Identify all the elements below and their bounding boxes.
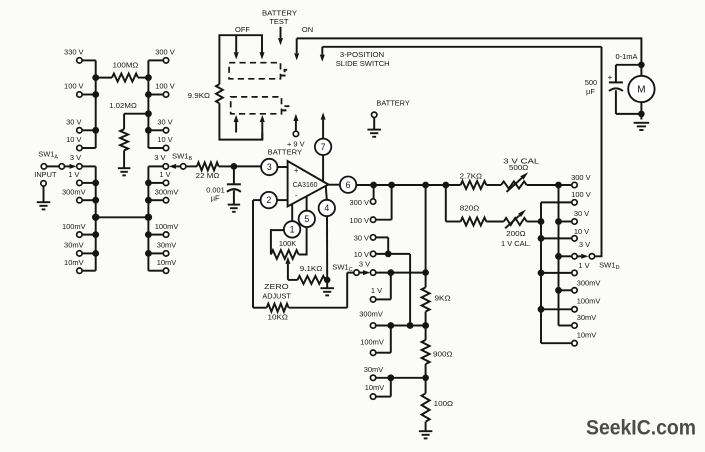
- junction column A bus: [92, 91, 99, 98]
- switch SW1_D contact 300 V: [559, 173, 592, 188]
- svg-text:1 V: 1 V: [159, 170, 171, 179]
- potentiometer 200 1 V CAL: [501, 210, 541, 248]
- resistor 2.7K: [460, 172, 502, 189]
- watermark SeekIC.com: [586, 417, 696, 440]
- junction column A bus: [92, 197, 99, 204]
- svg-text:3 V: 3 V: [154, 153, 166, 162]
- slide switch body (dashed) position 2: [231, 97, 290, 114]
- junction 3 V row / 1 V drop: [387, 269, 394, 276]
- potentiometer 100K (offset null): [271, 227, 307, 259]
- svg-text:4: 4: [324, 203, 329, 213]
- svg-text:9KΩ: 9KΩ: [435, 293, 451, 302]
- meter M 0-1mA: [628, 65, 654, 120]
- wire meter top to capacitor: [616, 65, 642, 83]
- svg-text:9.9KΩ: 9.9KΩ: [188, 91, 211, 100]
- svg-text:7: 7: [321, 142, 326, 152]
- wire column A bus lower: [95, 166, 97, 270]
- junction 1V-CAL bus / 1 V: [538, 270, 545, 277]
- svg-text:900Ω: 900Ω: [433, 350, 453, 359]
- junction 300mV / 100mV tie: [387, 322, 394, 329]
- resistor 9.9K: [188, 84, 223, 103]
- junction pin4 / 9.1K / ground: [324, 277, 331, 284]
- svg-text:SeekIC.com: SeekIC.com: [586, 417, 696, 440]
- switch SW1_A contact 30 V: [66, 118, 96, 134]
- junction column B bus: [145, 231, 152, 238]
- label ON: [302, 25, 313, 34]
- switch SW1_C contact 30 V: [354, 234, 389, 254]
- svg-text:10 V: 10 V: [66, 135, 82, 144]
- label 3-POSITION SLIDE SWITCH: [336, 50, 390, 68]
- svg-text:10 V: 10 V: [354, 250, 370, 259]
- svg-text:1 V: 1 V: [68, 170, 80, 179]
- switch SW1_C contact 300mV: [359, 309, 425, 328]
- switch SW1_A contact 30mV: [64, 241, 96, 257]
- svg-text:100 V: 100 V: [64, 82, 84, 91]
- svg-text:30 V: 30 V: [66, 118, 82, 127]
- junction divider 9K/900: [422, 322, 429, 329]
- switch SW1_A contact 10mV: [64, 258, 96, 274]
- svg-text:30mV: 30mV: [364, 365, 384, 374]
- svg-text:300 V: 300 V: [350, 198, 370, 207]
- junction output line / divider: [422, 182, 429, 189]
- switch SW1_A contact 100 V: [64, 82, 96, 98]
- svg-text:30 V: 30 V: [354, 234, 370, 243]
- svg-text:100 V: 100 V: [350, 216, 370, 225]
- junction column B bus: [145, 127, 152, 134]
- op-amp pin 4 (V-): [319, 186, 335, 280]
- svg-text:2: 2: [266, 195, 271, 205]
- svg-text:+: +: [607, 72, 612, 82]
- resistor 9K: [422, 273, 451, 326]
- svg-text:BATTERY: BATTERY: [376, 99, 409, 108]
- junction 1V-CAL bus / 200 pot: [538, 218, 545, 225]
- arrow ON position right: [320, 47, 325, 62]
- svg-text:SLIDE SWITCH: SLIDE SWITCH: [336, 59, 390, 68]
- arrow OFF position right: [260, 52, 265, 59]
- switch SW1_C contact 10mV: [365, 378, 391, 400]
- switch SW1_C contact 100 V: [350, 185, 392, 225]
- wire OFF bracket top: [219, 35, 262, 84]
- switch SW1_C wiper (pole, arrow to 3 V contact): [332, 259, 371, 275]
- switch SW1_A contact 100mV: [62, 222, 96, 238]
- svg-text:OFF: OFF: [235, 25, 250, 34]
- svg-text:+: +: [294, 166, 299, 175]
- wire slide-switch ON to SW1_D wiper: [322, 46, 601, 48]
- wire 820 branch: [446, 185, 461, 222]
- label 0-1mA: [616, 52, 639, 61]
- svg-text:3 V: 3 V: [359, 259, 371, 268]
- switch SW1_C contact 100mV: [360, 326, 391, 356]
- arrow OFF position left: [234, 35, 239, 59]
- switch SW1_B contact 30mV: [148, 241, 177, 257]
- svg-text:30mV: 30mV: [64, 241, 84, 250]
- svg-text:100mV: 100mV: [577, 297, 602, 306]
- resistor 9.1K: [298, 264, 328, 284]
- switch SW1_B contact 100 V: [148, 82, 175, 98]
- switch SW1_C contact 30mV: [364, 365, 426, 381]
- junction 1V-CAL bus / 10 V: [538, 235, 545, 242]
- switch SW1_C contact 3 V: [370, 270, 425, 275]
- svg-text:3 V: 3 V: [579, 240, 591, 249]
- switch SW1_B contact 300mV: [148, 187, 179, 203]
- junction meter bottom: [638, 111, 645, 118]
- junction divider 900/100: [422, 375, 429, 382]
- resistor 1.02M (1.02 megohm): [109, 101, 148, 168]
- switch SW1_B contact 30 V: [148, 118, 173, 134]
- switch SW1_C contact 1 V: [370, 273, 390, 302]
- svg-text:1 V CAL.: 1 V CAL.: [501, 239, 531, 248]
- resistor 100M (100 megohm): [96, 61, 149, 82]
- ground (pin 4): [320, 280, 334, 296]
- wire SW1_A 3 V contact to bus: [82, 165, 96, 167]
- switch SW1_A contact 330 V: [64, 48, 96, 64]
- wire column A bus upper: [95, 60, 97, 148]
- svg-text:µF: µF: [211, 194, 220, 203]
- switch SW1_B contact 1 V: [148, 170, 171, 185]
- resistor 820: [460, 204, 504, 226]
- svg-text:10mV: 10mV: [577, 331, 597, 340]
- svg-text:300mV: 300mV: [577, 278, 602, 287]
- junction 30 V / 10 V tie: [385, 251, 392, 258]
- capacitor 0.001 uF: [206, 166, 241, 204]
- junction 3V-CAL bus / 30 V: [555, 218, 562, 225]
- resistor 900: [422, 326, 453, 378]
- svg-text:3 V: 3 V: [70, 153, 82, 162]
- op-amp pin 2 (inverting input): [261, 192, 288, 208]
- junction 3V-CAL bus / 3 V: [555, 253, 562, 260]
- junction column A bus: [92, 127, 99, 134]
- svg-text:10mV: 10mV: [365, 383, 385, 392]
- svg-text:9.1KΩ: 9.1KΩ: [300, 264, 323, 273]
- node +9 V battery terminal: [268, 114, 306, 157]
- junction column B bus: [145, 91, 152, 98]
- svg-text:30 V: 30 V: [574, 209, 590, 218]
- svg-text:3: 3: [267, 162, 272, 172]
- op-amp pin 3 (non-inverting input): [261, 159, 288, 175]
- junction 22M / 0.001uF: [231, 163, 238, 170]
- wire slide-switch ON to meter: [297, 38, 642, 62]
- junction column A bus: [92, 74, 99, 81]
- svg-text:100K: 100K: [279, 239, 296, 248]
- svg-text:ON: ON: [302, 25, 313, 34]
- svg-text:0-1mA: 0-1mA: [616, 52, 639, 61]
- svg-text:500: 500: [585, 78, 597, 87]
- svg-text:100Ω: 100Ω: [434, 399, 454, 408]
- resistor 100: [422, 378, 454, 431]
- wire column B bus lower: [147, 166, 149, 270]
- svg-text:M: M: [637, 85, 645, 96]
- svg-text:300 V: 300 V: [571, 173, 591, 182]
- wire SW1_D bus 1V-CAL: [540, 202, 542, 343]
- wire column B bus upper: [147, 60, 149, 148]
- svg-text:30 V: 30 V: [157, 118, 173, 127]
- ground (input): [37, 202, 51, 209]
- switch SW1_B contact 10mV: [148, 258, 177, 274]
- svg-text:10mV: 10mV: [157, 258, 177, 267]
- switch SW1_C contact 10 V: [354, 250, 410, 326]
- svg-text:BATTERY: BATTERY: [268, 147, 302, 156]
- switch SW1_D wiper (arrow and pole): [577, 47, 619, 271]
- wire cross-connect bus A to bus B: [92, 214, 152, 221]
- svg-text:−: −: [295, 192, 298, 201]
- potentiometer 500 3 V CAL: [501, 156, 558, 192]
- wire OFF bracket bottom: [219, 103, 262, 139]
- ground (meter): [634, 123, 650, 130]
- svg-text:2.7KΩ: 2.7KΩ: [460, 172, 483, 181]
- switch SW1_B contact 10 V: [148, 135, 173, 151]
- switch SW1_D contact 300mV: [559, 278, 602, 293]
- wiper arrow 100K pot: [285, 257, 297, 280]
- switch SW1_B contact 300 V: [148, 48, 175, 64]
- switch SW1_D contact 100mV: [541, 297, 601, 312]
- svg-text:10KΩ: 10KΩ: [268, 313, 289, 322]
- svg-text:1.02MΩ: 1.02MΩ: [109, 101, 137, 110]
- svg-text:10 V: 10 V: [157, 135, 173, 144]
- junction 1V-CAL bus / 100mV: [538, 306, 545, 313]
- arrow battery position left: [234, 115, 239, 133]
- op-amp pin 7 (V+) with arrow to slide switch: [315, 112, 331, 181]
- label OFF: [235, 25, 250, 34]
- switch SW1_D contact 3 V: [559, 240, 592, 259]
- op-amp pin 6 (output): [328, 177, 356, 193]
- switch SW1_A wiper (INPUT pole, arm and arrow to 3 V contact): [39, 150, 83, 170]
- junction column B bus: [145, 197, 152, 204]
- wire op-amp output line: [356, 184, 460, 186]
- switch SW1_C contact 300 V: [350, 185, 376, 207]
- svg-text:300mV: 300mV: [155, 187, 180, 196]
- svg-text:1 V: 1 V: [578, 261, 590, 270]
- ground (1.02M resistor): [118, 168, 131, 175]
- junction 3V-CAL bus / output line: [555, 182, 562, 189]
- junction 30mV / 10mV tie: [387, 374, 394, 381]
- wire 22M to pin 3: [234, 165, 261, 167]
- INPUT terminal: [34, 170, 57, 201]
- svg-text:100MΩ: 100MΩ: [113, 61, 139, 70]
- svg-text:10 V: 10 V: [574, 227, 590, 236]
- svg-text:CA3160: CA3160: [293, 182, 318, 189]
- arrow battery-test position: [278, 27, 283, 46]
- switch SW1_D contact 30mV: [559, 313, 598, 328]
- junction column A bus: [92, 231, 99, 238]
- junction 10V-column / 300mV row: [407, 322, 414, 329]
- svg-text:TEST: TEST: [269, 17, 288, 26]
- junction column A bus: [92, 180, 99, 187]
- label BATTERY TEST: [262, 8, 297, 26]
- op-amp U1 CA3160: [288, 161, 329, 206]
- svg-text:1 V: 1 V: [371, 286, 383, 295]
- junction output line / 100 V: [388, 182, 395, 189]
- wire output to divider: [425, 185, 427, 273]
- arrow ON position left: [294, 38, 299, 60]
- svg-text:µF: µF: [586, 87, 595, 96]
- switch SW1_A contact 300mV: [62, 187, 96, 203]
- junction column B bus: [145, 110, 152, 117]
- junction column B bus: [145, 74, 152, 81]
- svg-text:30mV: 30mV: [157, 241, 177, 250]
- node BATTERY test terminal: [372, 99, 410, 129]
- svg-text:300mV: 300mV: [62, 187, 87, 196]
- junction meter top: [638, 62, 645, 69]
- junction 3 V row / divider chain: [422, 269, 429, 276]
- switch SW1_B contact 100mV: [148, 222, 179, 238]
- switch SW1_D contact 10mV: [541, 331, 597, 346]
- svg-text:10mV: 10mV: [64, 258, 84, 267]
- junction 3V-CAL bus / 300mV: [555, 287, 562, 294]
- svg-text:ZERO: ZERO: [264, 282, 289, 291]
- resistor 22M (22 megohm): [196, 162, 234, 179]
- ground (0.001uF): [228, 205, 241, 212]
- svg-text:5: 5: [304, 214, 309, 224]
- op-amp pin 1 (offset): [284, 204, 300, 238]
- wire 10K to SW1_C wiper: [347, 273, 354, 308]
- switch SW1_D contact 10 V: [541, 227, 590, 241]
- svg-text:1: 1: [290, 225, 295, 235]
- svg-text:100mV: 100mV: [360, 338, 385, 347]
- junction output line / 300 V: [370, 182, 377, 189]
- svg-text:30mV: 30mV: [577, 313, 597, 322]
- svg-text:INPUT: INPUT: [34, 170, 57, 179]
- op-amp pin 5 (offset): [299, 196, 315, 227]
- switch SW1_D contact 100 V: [541, 190, 592, 205]
- arrow battery position right: [260, 115, 265, 140]
- switch SW1_A contact 1 V: [68, 170, 95, 185]
- svg-text:6: 6: [346, 180, 351, 190]
- ground (battery terminal): [367, 130, 381, 137]
- svg-text:500Ω: 500Ω: [509, 163, 529, 172]
- slide switch body (dashed) position 1: [229, 63, 289, 79]
- svg-text:100mV: 100mV: [155, 222, 180, 231]
- junction output / 820 branch: [442, 182, 449, 189]
- junction column B bus: [145, 250, 152, 257]
- svg-text:ADJUST: ADJUST: [262, 292, 291, 301]
- svg-text:820Ω: 820Ω: [460, 204, 480, 213]
- svg-text:100 V: 100 V: [155, 82, 175, 91]
- svg-text:200Ω: 200Ω: [506, 229, 526, 238]
- junction column A bus: [92, 250, 99, 257]
- svg-text:300 V: 300 V: [155, 48, 175, 57]
- switch SW1_D contact 30 V: [559, 209, 591, 224]
- junction column B bus: [145, 180, 152, 187]
- svg-text:330 V: 330 V: [64, 48, 84, 57]
- capacitor 500 uF (electrolytic): [585, 72, 642, 114]
- wire pin 2 to zero-adjust: [253, 200, 261, 308]
- switch SW1_D contact 1 V: [541, 261, 591, 276]
- ground (divider): [419, 431, 433, 438]
- svg-text:100 V: 100 V: [571, 190, 591, 199]
- svg-text:300mV: 300mV: [359, 309, 384, 318]
- svg-text:100mV: 100mV: [62, 222, 87, 231]
- potentiometer 10K ZERO ADJUST: [253, 282, 347, 322]
- switch SW1_B wiper (3 V contact, arrow and pole): [148, 151, 197, 169]
- switch SW1_A contact 10 V: [66, 135, 96, 151]
- wire SW1_D bus 3V-CAL: [558, 185, 560, 326]
